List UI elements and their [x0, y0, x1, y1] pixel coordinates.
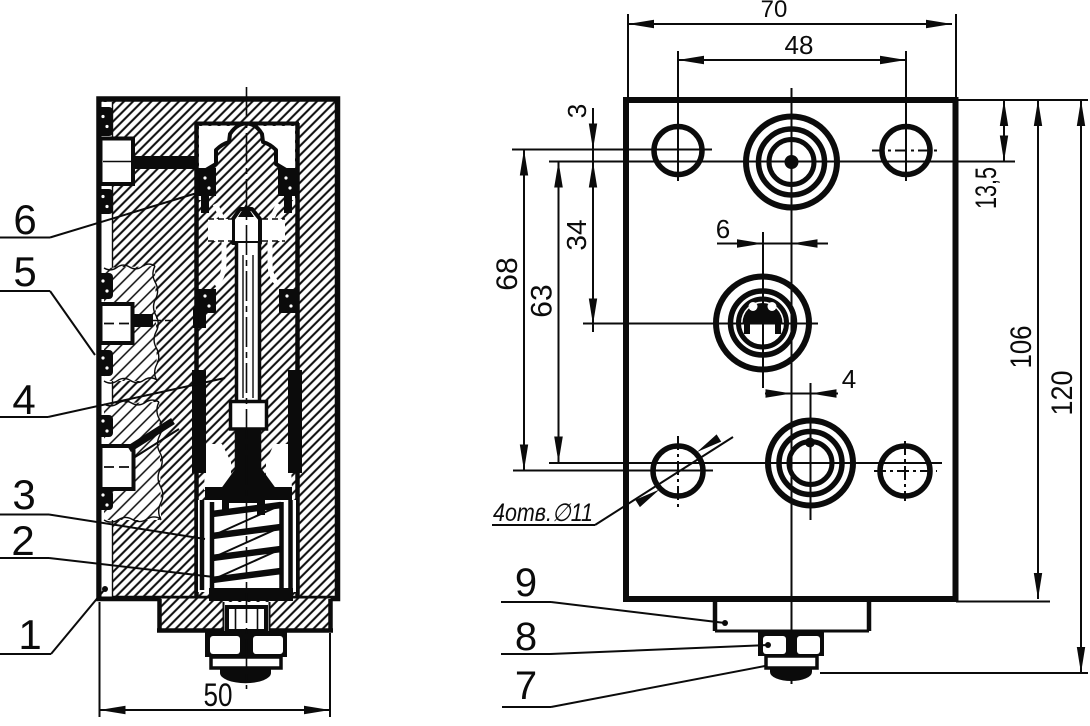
svg-text:120: 120: [1046, 371, 1079, 416]
svg-text:106: 106: [1005, 326, 1038, 369]
svg-text:70: 70: [761, 0, 788, 23]
svg-text:4: 4: [842, 364, 856, 394]
svg-text:13,5: 13,5: [970, 167, 1003, 209]
svg-text:9: 9: [515, 561, 537, 605]
svg-text:34: 34: [561, 219, 592, 250]
svg-text:50: 50: [204, 677, 233, 713]
svg-text:4отв.∅11: 4отв.∅11: [493, 499, 593, 527]
svg-text:3: 3: [12, 471, 35, 518]
svg-text:3: 3: [562, 104, 592, 118]
svg-text:8: 8: [515, 615, 537, 659]
svg-text:48: 48: [785, 30, 814, 60]
svg-text:1: 1: [18, 611, 41, 658]
svg-text:63: 63: [526, 284, 559, 317]
svg-text:68: 68: [491, 257, 524, 290]
svg-text:2: 2: [11, 517, 34, 564]
svg-text:6: 6: [716, 214, 730, 244]
svg-text:7: 7: [515, 664, 537, 708]
svg-text:5: 5: [13, 248, 36, 295]
svg-text:4: 4: [12, 376, 35, 423]
svg-text:6: 6: [13, 196, 36, 243]
